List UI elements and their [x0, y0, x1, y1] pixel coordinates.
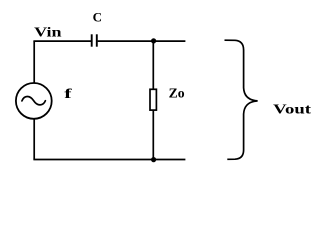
source V1 sine symbol: [22, 96, 46, 104]
svg-text:C: C: [93, 10, 102, 25]
node junction dot top: [151, 38, 156, 43]
source V1 circle: [16, 83, 52, 119]
wire middle vertical lower: [152, 110, 154, 159]
wire top horizontal left segment: [33, 40, 91, 42]
brace output: [225, 40, 258, 159]
impedance Zo box: [150, 89, 156, 110]
wire middle vertical upper: [152, 41, 154, 89]
wire top horizontal right segment: [98, 40, 186, 42]
svg-text:Zo: Zo: [169, 87, 185, 102]
wire bottom-left vertical: [33, 119, 35, 159]
svg-text:Vin: Vin: [34, 26, 62, 41]
node junction dot bottom: [151, 157, 156, 162]
wire bottom horizontal: [33, 159, 185, 161]
capacitor C1 left plate: [91, 34, 93, 46]
svg-text:f: f: [64, 87, 72, 102]
capacitor C1 right plate: [96, 34, 98, 46]
wire top-left vertical: [33, 41, 35, 83]
svg-text:Vout: Vout: [273, 103, 311, 118]
